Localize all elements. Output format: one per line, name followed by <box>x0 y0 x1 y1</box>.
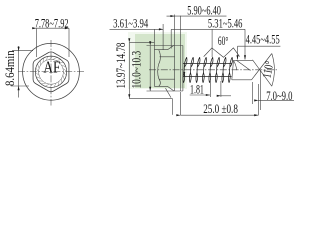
dim 5.31~5.46 <box>171 28 245 30</box>
svg-text:7.0~9.0: 7.0~9.0 <box>266 89 292 103</box>
side view centerline <box>149 69 277 71</box>
dim 7.0~9.0 <box>258 99 294 101</box>
dim 1.81 <box>190 94 210 96</box>
hexagon <box>33 52 69 92</box>
head side: serration skirt <box>166 86 175 97</box>
head side: left face (extends up as extension line) <box>153 29 155 86</box>
dim 5.90~6.40 <box>167 15 175 17</box>
body left transition <box>232 60 234 79</box>
svg-text:5.90~6.40: 5.90~6.40 <box>187 4 221 18</box>
dim 10.0~10.3 <box>149 46 151 92</box>
svg-text:7.78~7.92: 7.78~7.92 <box>35 16 69 30</box>
svg-text:13.97~14.78: 13.97~14.78 <box>114 43 128 89</box>
flange inner line (extends up as extension line) <box>179 16 181 91</box>
head side: facet lines <box>160 57 175 79</box>
dim 7.78~7.92 lines <box>36 27 69 29</box>
dim 13.97~14.78 bracket <box>128 42 130 98</box>
svg-text:3.61~3.94: 3.61~3.94 <box>113 17 148 31</box>
60 deg thread profile mark <box>204 48 240 57</box>
svg-text:60°: 60° <box>218 34 228 48</box>
head side: step to flange top <box>168 46 174 50</box>
dim 25.0 +-0.8 <box>181 114 259 116</box>
svg-text:AF: AF <box>43 57 60 76</box>
dim 3.61~3.94 <box>110 28 164 30</box>
angle arc <box>272 54 275 87</box>
svg-text:25.0 ±0.8: 25.0 ±0.8 <box>203 102 238 116</box>
watermark green patch <box>128 32 187 89</box>
head side: hex body top/bottom <box>154 50 167 87</box>
dim 4.45~4.55 <box>238 45 281 47</box>
flute curves <box>234 60 251 70</box>
shank root lines + thread <box>183 57 233 82</box>
svg-text:10.0~10.3: 10.0~10.3 <box>130 51 144 89</box>
flange (left edge extends up as extension line) <box>175 15 183 92</box>
dim 8.64min lines <box>18 46 20 51</box>
top view centerline horizontal <box>18 70 84 72</box>
svg-text:5.31~5.46: 5.31~5.46 <box>208 17 243 31</box>
drill point body <box>232 60 253 79</box>
svg-text:1.81: 1.81 <box>190 83 204 97</box>
top view centerline vertical <box>50 40 52 106</box>
head side: facet arcs <box>158 50 161 86</box>
head outer circle <box>23 43 80 100</box>
svg-text:4.45~4.55: 4.45~4.55 <box>246 32 280 46</box>
svg-text:8.64min: 8.64min <box>3 50 17 86</box>
serration ring <box>35 56 66 87</box>
head inner circle <box>35 56 66 87</box>
drill cone and 110-degree X lines <box>252 54 272 87</box>
